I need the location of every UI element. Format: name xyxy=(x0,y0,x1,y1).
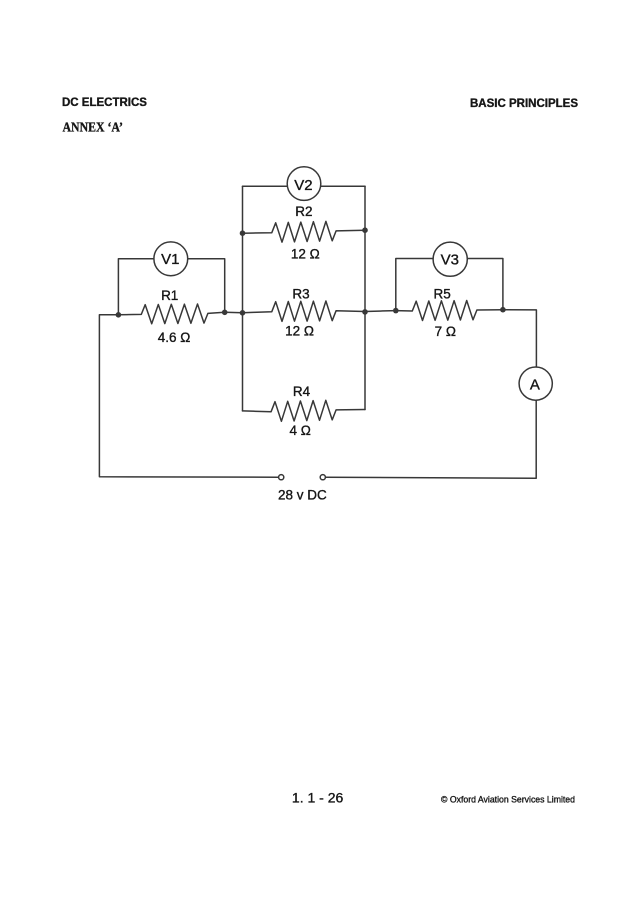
svg-text:4 Ω: 4 Ω xyxy=(290,423,311,438)
resistor R1 xyxy=(118,304,224,324)
junction: V1 right / main row xyxy=(222,310,228,316)
svg-text:DC ELECTRICS: DC ELECTRICS xyxy=(62,97,147,109)
ammeter A xyxy=(519,367,552,400)
svg-text:4.6 Ω: 4.6 Ω xyxy=(158,330,191,345)
svg-text:V1: V1 xyxy=(161,251,179,268)
wire: main row R1 to middle branch xyxy=(225,311,243,314)
svg-text:V3: V3 xyxy=(441,252,459,269)
junction: middle branch right / main row xyxy=(362,309,368,315)
resistor R5 xyxy=(396,301,503,321)
wire: main row middle branch to V3/R5 node xyxy=(365,310,396,313)
svg-text:R1: R1 xyxy=(161,288,178,303)
battery terminal left (open circle) xyxy=(279,475,284,480)
svg-text:1. 1 - 26: 1. 1 - 26 xyxy=(292,790,344,806)
wire: middle branch left vertical xyxy=(242,186,244,411)
resistor R4 xyxy=(243,400,366,421)
svg-text:BASIC PRINCIPLES: BASIC PRINCIPLES xyxy=(470,98,578,110)
battery terminal right (open circle) xyxy=(320,475,325,480)
wire: R5 node to ammeter top xyxy=(503,310,537,367)
resistor R3 xyxy=(243,301,366,321)
svg-text:7 Ω: 7 Ω xyxy=(435,324,456,339)
wire: V1 loop left vertical xyxy=(118,259,153,315)
svg-text:R2: R2 xyxy=(295,204,312,219)
junction: middle branch left / main row xyxy=(240,310,246,316)
wire: V3 loop left side xyxy=(396,259,433,311)
svg-text:A: A xyxy=(530,377,540,394)
svg-text:R5: R5 xyxy=(433,286,450,301)
resistor R2 xyxy=(243,221,366,242)
svg-text:ANNEX ‘A’: ANNEX ‘A’ xyxy=(63,121,124,136)
wire: left outer branch (bottom-left corner up to main row) xyxy=(99,315,278,477)
wire: V2 loop top left xyxy=(243,185,288,187)
svg-text:© Oxford Aviation Services Lim: © Oxford Aviation Services Limited xyxy=(441,795,575,806)
svg-text:28 v DC: 28 v DC xyxy=(278,488,327,503)
junction: middle branch right / R2 row xyxy=(362,227,368,233)
junction: middle branch left / R2 row xyxy=(240,230,246,236)
voltmeter V3 xyxy=(433,242,467,276)
svg-text:V2: V2 xyxy=(294,177,312,194)
voltmeter V2 xyxy=(287,167,321,201)
wire: V3 loop right side xyxy=(467,259,503,310)
wire: V2 loop top right xyxy=(321,185,365,187)
svg-text:R4: R4 xyxy=(293,384,311,399)
wire: middle branch right vertical xyxy=(364,186,366,409)
wire: ammeter bottom to bottom-right corner and battery right terminal xyxy=(325,400,536,478)
svg-text:12 Ω: 12 Ω xyxy=(291,247,320,262)
svg-text:12 Ω: 12 Ω xyxy=(285,324,314,339)
junction: V1 left / main row xyxy=(116,312,122,318)
junction: V3 right / main row xyxy=(500,307,506,313)
svg-text:R3: R3 xyxy=(292,287,309,302)
voltmeter V1 xyxy=(154,242,188,276)
wire: V1 loop right side xyxy=(188,259,225,313)
junction: V3 left / main row xyxy=(393,308,399,314)
